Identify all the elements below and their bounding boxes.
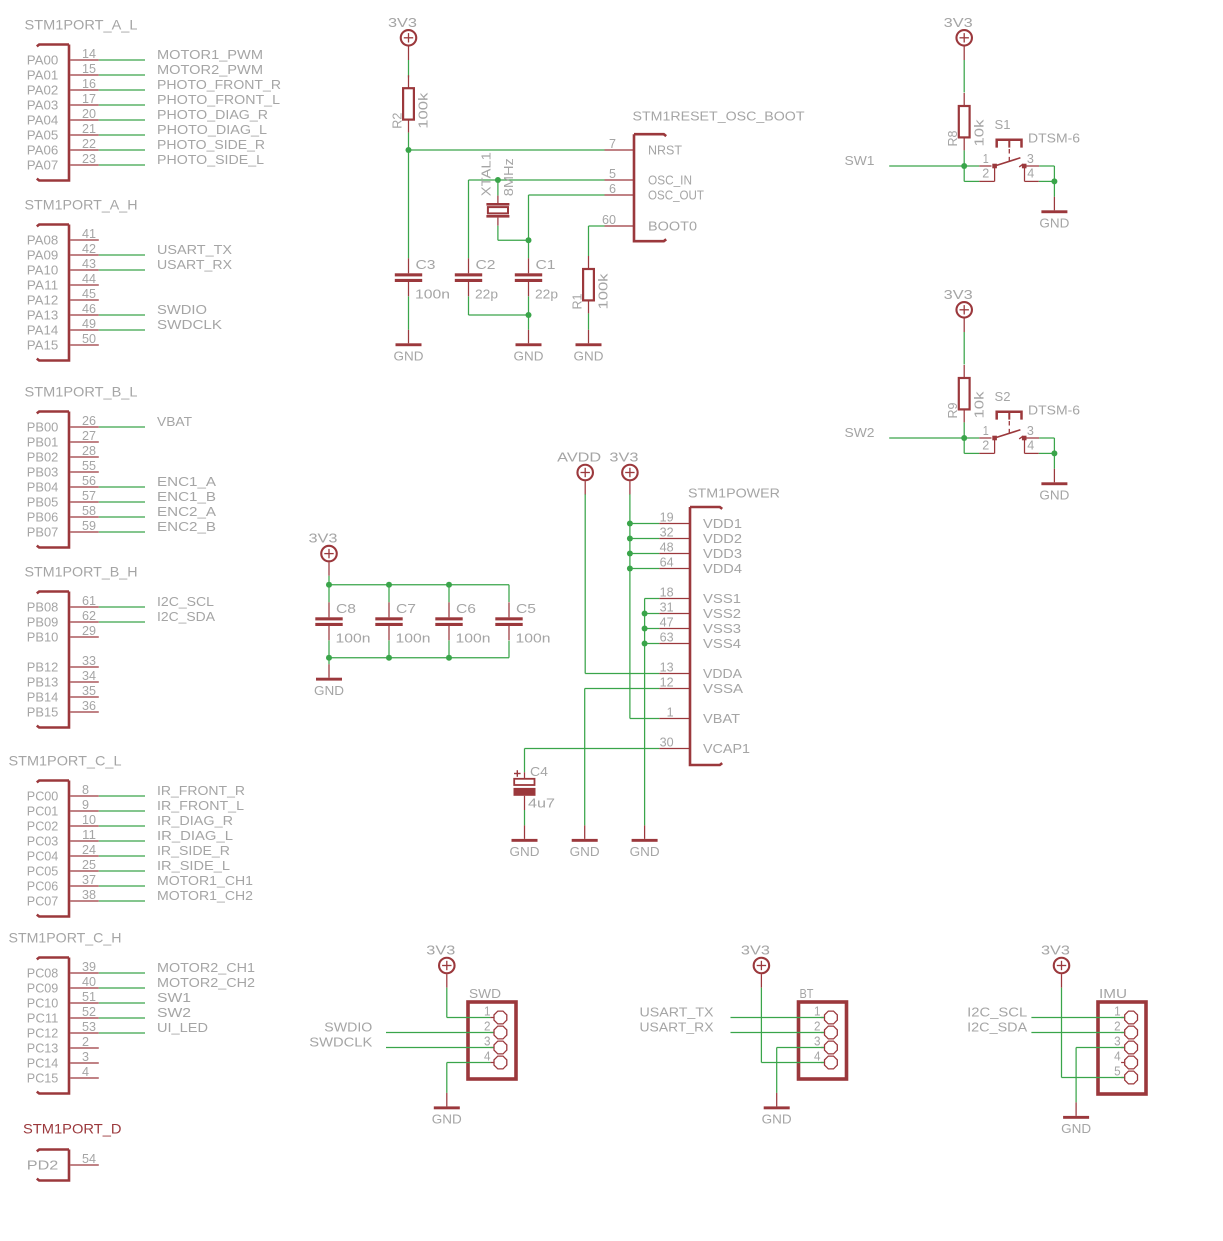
svg-text:PB04: PB04 — [27, 480, 59, 495]
svg-text:I2C_SDA: I2C_SDA — [157, 609, 215, 624]
wire down to ground — [1075, 1048, 1077, 1103]
svg-text:VBAT: VBAT — [157, 414, 192, 429]
svg-text:PC04: PC04 — [27, 849, 59, 864]
svg-text:100n: 100n — [336, 631, 371, 646]
junction VSS rail y=628.5 — [642, 626, 648, 632]
svg-text:8: 8 — [82, 782, 89, 797]
ground below R1 — [574, 330, 604, 364]
wire VSS pin — [645, 643, 660, 645]
svg-text:PD2: PD2 — [27, 1158, 59, 1173]
svg-text:VBAT: VBAT — [703, 711, 740, 726]
svg-text:C4: C4 — [530, 764, 548, 779]
pin 1 octagon pad — [1121, 1017, 1124, 1019]
wire 3V3 to R9 — [963, 332, 965, 365]
wire BOOT0 down to R1 — [588, 226, 590, 256]
svg-text:4: 4 — [814, 1049, 821, 1064]
svg-text:GND: GND — [314, 683, 344, 698]
pin 1 octagon pad — [821, 1017, 824, 1019]
svg-text:32: 32 — [660, 525, 674, 540]
pin 37 PC06 net MOTOR1_CH1 — [70, 885, 99, 887]
ground for decoupling bank — [314, 664, 344, 698]
svg-text:IR_DIAG_L: IR_DIAG_L — [157, 828, 233, 843]
wire R2 to NRST net — [408, 133, 410, 150]
wire bus to C8 — [328, 585, 330, 603]
pin 11 PC03 net IR_DIAG_L — [70, 840, 99, 842]
wire pins 3-4 — [1053, 438, 1055, 453]
svg-text:DTSM-6: DTSM-6 — [1028, 131, 1080, 146]
svg-text:MOTOR2_PWM: MOTOR2_PWM — [157, 62, 263, 77]
junction VDD rail y=568.5 — [627, 566, 633, 572]
svg-text:IMU: IMU — [1099, 986, 1127, 1001]
wire 3V3 to SWD pin 1 — [447, 1017, 491, 1019]
port STM1PORT_B_L body — [37, 412, 69, 548]
wire 3V3 down to pin 4 — [760, 988, 762, 1063]
wire I2C_SDA to pin 2 — [1031, 1032, 1124, 1034]
wire bus to C7 — [388, 585, 390, 603]
svg-text:SW2: SW2 — [845, 425, 875, 440]
wire C2 to C1 gnd node — [469, 314, 529, 316]
pin 47 VSS3 — [659, 628, 690, 630]
pin 13 VDDA — [659, 673, 690, 675]
pin 55 PB03 — [70, 471, 99, 473]
svg-text:GND: GND — [1061, 1121, 1091, 1136]
wire C8 to bottom bus — [328, 640, 330, 657]
ground below C1 — [514, 330, 544, 364]
svg-text:DTSM-6: DTSM-6 — [1028, 403, 1080, 418]
svg-text:USART_RX: USART_RX — [640, 1019, 714, 1034]
wire AVDD to VDDA — [584, 494, 586, 673]
wire IMU pin 3 to ground — [1076, 1047, 1124, 1049]
svg-text:PA13: PA13 — [27, 308, 59, 323]
junction VDD rail y=553.5 — [627, 551, 633, 557]
wire VSS rail — [644, 599, 646, 826]
wire 3V3 rail to VBAT — [630, 718, 659, 720]
svg-text:51: 51 — [82, 989, 96, 1004]
wire VCAP1 to C4 — [525, 748, 660, 750]
wire 3V3 to R8 — [963, 60, 965, 93]
pin 2 octagon pad — [1121, 1032, 1124, 1034]
svg-text:38: 38 — [82, 887, 96, 902]
wire I2C_SCL to pin 1 — [1031, 1017, 1124, 1019]
junction SW2 — [961, 435, 967, 441]
svg-text:VSS3: VSS3 — [703, 621, 741, 636]
svg-text:34: 34 — [82, 668, 96, 683]
svg-text:100k: 100k — [596, 273, 611, 310]
port STM1PORT_B_H body — [37, 592, 69, 728]
wire to ground — [1053, 181, 1055, 196]
pin 1 octagon pad — [490, 1017, 493, 1019]
wire to VDD pin — [630, 553, 659, 555]
pin 18 VSS1 — [659, 598, 690, 600]
wire 3V3 down — [446, 988, 448, 1018]
pin 32 VDD2 — [659, 538, 690, 540]
pin 49 PA14 net SWDCLK — [70, 329, 99, 331]
junction C1/C2 ground node — [526, 312, 532, 318]
svg-text:C1: C1 — [536, 257, 556, 272]
wire C2 bottom — [468, 296, 470, 315]
svg-text:PB01: PB01 — [27, 435, 59, 450]
svg-text:44: 44 — [82, 271, 96, 286]
pin 52 PC11 net SW2 — [70, 1017, 99, 1019]
svg-text:PC00: PC00 — [27, 789, 59, 804]
junction bottom bus at C8 — [326, 655, 332, 661]
pin 4 octagon pad — [821, 1062, 824, 1064]
svg-text:46: 46 — [82, 301, 96, 316]
pin 3 octagon pad — [821, 1047, 824, 1049]
svg-text:3: 3 — [814, 1034, 821, 1049]
svg-text:PC15: PC15 — [27, 1071, 59, 1086]
svg-text:I2C_SDA: I2C_SDA — [967, 1019, 1027, 1034]
wire R8 to SW1 net — [963, 150, 965, 166]
svg-text:2: 2 — [982, 438, 989, 453]
supply 3V3 (R2 pull-up) — [388, 15, 417, 60]
svg-text:PA06: PA06 — [27, 143, 59, 158]
supply 3V3 (power block) — [609, 450, 638, 495]
port STM1PORT_C_L body — [37, 781, 69, 917]
svg-text:PC01: PC01 — [27, 804, 59, 819]
svg-text:45: 45 — [82, 286, 96, 301]
svg-text:22p: 22p — [535, 287, 558, 302]
svg-text:IR_DIAG_R: IR_DIAG_R — [157, 813, 233, 828]
svg-text:PB12: PB12 — [27, 660, 59, 675]
junction bottom bus at C6 — [446, 655, 452, 661]
svg-text:100k: 100k — [416, 92, 431, 129]
svg-text:MOTOR1_PWM: MOTOR1_PWM — [157, 47, 263, 62]
svg-text:43: 43 — [82, 256, 96, 271]
wire C4 to ground — [524, 810, 526, 825]
junction top bus at C7 — [386, 582, 392, 588]
wire SWDIO to pin 2 — [386, 1032, 494, 1034]
svg-text:C3: C3 — [416, 257, 436, 272]
pin 16 PA02 net PHOTO_FRONT_R — [70, 89, 99, 91]
svg-text:STM1PORT_A_H: STM1PORT_A_H — [25, 197, 138, 213]
wire to VDD pin — [630, 568, 659, 570]
pin 51 PC10 net SW1 — [70, 1002, 99, 1004]
svg-text:I2C_SCL: I2C_SCL — [967, 1004, 1027, 1019]
svg-text:AVDD: AVDD — [557, 450, 601, 465]
svg-text:PC09: PC09 — [27, 981, 59, 996]
svg-text:22: 22 — [82, 136, 96, 151]
svg-text:PA14: PA14 — [27, 323, 59, 338]
capacitor C8 100n — [315, 602, 342, 640]
svg-text:SW1: SW1 — [157, 990, 191, 1005]
capacitor C6 100n — [435, 602, 462, 640]
pin 33 PB12 — [70, 666, 99, 668]
svg-text:35: 35 — [82, 683, 96, 698]
svg-text:IR_SIDE_R: IR_SIDE_R — [157, 843, 230, 858]
wire down to ground — [446, 1063, 448, 1093]
ground IMU — [1061, 1102, 1091, 1136]
svg-text:30: 30 — [660, 735, 674, 750]
wire VSS pin — [645, 613, 660, 615]
svg-text:22p: 22p — [475, 287, 498, 302]
wire pins 3-4 — [1053, 166, 1055, 181]
svg-text:PA15: PA15 — [27, 338, 59, 353]
svg-text:PA08: PA08 — [27, 233, 59, 248]
wire top bus — [329, 584, 509, 586]
svg-text:ENC1_A: ENC1_A — [157, 474, 216, 489]
wire OSC_OUT down — [528, 195, 530, 240]
svg-text:54: 54 — [82, 1151, 96, 1166]
svg-text:31: 31 — [660, 600, 674, 615]
svg-text:3V3: 3V3 — [609, 450, 638, 465]
wire OSC_IN down to C2 — [468, 180, 470, 258]
wire to VDD pin — [630, 538, 659, 540]
pin 8 PC00 net IR_FRONT_R — [70, 795, 99, 797]
svg-text:ENC2_B: ENC2_B — [157, 519, 216, 534]
resistor R1 100k — [583, 256, 594, 313]
svg-text:49: 49 — [82, 316, 96, 331]
svg-text:VSS4: VSS4 — [703, 636, 741, 651]
wire to switch pin 2 — [964, 180, 979, 182]
pin 39 PC08 net MOTOR2_CH1 — [70, 972, 99, 974]
ground below C4 — [510, 825, 540, 859]
wire to switch pin 2 — [963, 166, 965, 181]
svg-text:IR_FRONT_R: IR_FRONT_R — [157, 783, 245, 798]
svg-text:6: 6 — [609, 181, 616, 196]
svg-text:24: 24 — [82, 842, 96, 857]
svg-text:VDD1: VDD1 — [703, 516, 742, 531]
junction SW1 — [961, 163, 967, 169]
wire to ground — [528, 315, 530, 330]
svg-text:VDDA: VDDA — [703, 666, 742, 681]
wire to switch pin 2 — [963, 438, 965, 453]
svg-text:2: 2 — [1114, 1019, 1121, 1034]
wire 3V3 to IMU pin 5 — [1062, 1077, 1125, 1079]
pin 64 VDD4 — [659, 568, 690, 570]
svg-text:VSSA: VSSA — [703, 681, 743, 696]
svg-text:4: 4 — [1027, 438, 1034, 453]
pin 34 PB13 — [70, 681, 99, 683]
svg-text:MOTOR2_CH1: MOTOR2_CH1 — [157, 960, 255, 975]
svg-text:PC08: PC08 — [27, 966, 59, 981]
pin 26 PB00 net VBAT — [70, 426, 99, 428]
svg-text:7: 7 — [609, 136, 616, 151]
pin 42 PA09 net USART_TX — [70, 254, 99, 256]
svg-text:SWDIO: SWDIO — [157, 302, 207, 317]
svg-text:IR_FRONT_L: IR_FRONT_L — [157, 798, 244, 813]
svg-text:PB10: PB10 — [27, 630, 59, 645]
svg-text:37: 37 — [82, 872, 96, 887]
svg-text:19: 19 — [660, 510, 674, 525]
pin 63 VSS4 — [659, 643, 690, 645]
svg-text:9: 9 — [82, 797, 89, 812]
svg-text:GND: GND — [394, 349, 424, 364]
svg-text:PB09: PB09 — [27, 615, 59, 630]
pin 9 PC01 net IR_FRONT_L — [70, 810, 99, 812]
svg-text:53: 53 — [82, 1019, 96, 1034]
pin 2 octagon pad — [821, 1032, 824, 1034]
svg-text:STM1POWER: STM1POWER — [688, 486, 780, 501]
svg-text:PB00: PB00 — [27, 420, 59, 435]
svg-text:PA11: PA11 — [27, 278, 59, 293]
pin 12 VSSA — [659, 688, 690, 690]
wire VSSA to ground — [585, 688, 660, 690]
wire VSS1 — [645, 598, 660, 600]
supply 3V3 (BT) — [741, 943, 770, 988]
svg-text:PHOTO_FRONT_L: PHOTO_FRONT_L — [157, 92, 280, 107]
svg-text:GND: GND — [630, 844, 660, 859]
svg-text:PHOTO_DIAG_L: PHOTO_DIAG_L — [157, 122, 267, 137]
wire USART_TX to pin 1 — [731, 1017, 825, 1019]
svg-text:3: 3 — [1027, 423, 1034, 438]
ground below C3 — [394, 330, 424, 364]
junction OSC_IN / XTAL1 top — [495, 177, 501, 183]
svg-text:VDD2: VDD2 — [703, 531, 742, 546]
svg-text:2: 2 — [814, 1019, 821, 1034]
wire R9 to SW2 net — [963, 422, 965, 438]
svg-text:PB03: PB03 — [27, 465, 59, 480]
svg-text:PB06: PB06 — [27, 510, 59, 525]
junction VSS rail y=613.5 — [642, 611, 648, 617]
svg-text:GND: GND — [1039, 488, 1069, 503]
svg-text:PC06: PC06 — [27, 879, 59, 894]
svg-text:C7: C7 — [396, 601, 416, 616]
wire NRST net — [409, 149, 605, 151]
pin 43 PA10 net USART_RX — [70, 269, 99, 271]
svg-text:4: 4 — [1114, 1049, 1121, 1064]
capacitor C3 100n — [395, 258, 422, 296]
pin 54 PD2 — [70, 1164, 99, 1166]
pin 62 PB09 net I2C_SDA — [70, 621, 99, 623]
svg-text:62: 62 — [82, 608, 96, 623]
svg-text:PC13: PC13 — [27, 1041, 59, 1056]
svg-text:3V3: 3V3 — [388, 15, 417, 30]
svg-text:R8: R8 — [945, 131, 960, 147]
svg-text:OSC_IN: OSC_IN — [648, 173, 692, 188]
pin 3 octagon pad — [490, 1047, 493, 1049]
svg-text:42: 42 — [82, 241, 96, 256]
svg-text:58: 58 — [82, 503, 96, 518]
wire switch pin 3 — [1039, 165, 1054, 167]
supply 3V3 (IMU) — [1041, 943, 1070, 988]
ground VSSA — [570, 825, 600, 859]
svg-text:NRST: NRST — [648, 143, 682, 158]
svg-text:PC02: PC02 — [27, 819, 59, 834]
svg-text:40: 40 — [82, 974, 96, 989]
capacitor C7 100n — [375, 602, 402, 640]
svg-text:VCAP1: VCAP1 — [703, 741, 750, 756]
svg-text:VSS1: VSS1 — [703, 591, 741, 606]
supply 3V3 (R8) — [944, 15, 973, 60]
pin 50 PA15 — [70, 344, 99, 346]
svg-text:PA02: PA02 — [27, 83, 59, 98]
svg-text:PC05: PC05 — [27, 864, 59, 879]
junction XTAL1 bottom / C1 — [526, 237, 532, 243]
wire VSS pin — [645, 628, 660, 630]
svg-text:OSC_OUT: OSC_OUT — [648, 188, 704, 203]
svg-text:4: 4 — [82, 1064, 89, 1079]
wire C5 to bottom bus — [508, 641, 510, 658]
svg-text:3V3: 3V3 — [426, 943, 455, 958]
svg-text:PHOTO_SIDE_R: PHOTO_SIDE_R — [157, 137, 265, 152]
port STM1PORT_D body — [37, 1150, 69, 1181]
svg-text:10k: 10k — [971, 119, 986, 147]
pin 44 PA11 — [70, 284, 99, 286]
svg-text:4: 4 — [484, 1049, 491, 1064]
switch S1 DTSM-6 — [979, 140, 1039, 182]
svg-text:52: 52 — [82, 1004, 96, 1019]
ground for S1 — [1039, 197, 1069, 231]
svg-text:3V3: 3V3 — [741, 943, 770, 958]
pin 61 PB08 net I2C_SCL — [70, 606, 99, 608]
pin 17 PA03 net PHOTO_FRONT_L — [70, 104, 99, 106]
resistor R2 100k — [403, 75, 414, 132]
svg-text:1: 1 — [814, 1004, 821, 1019]
port STM1PORT_A_L body — [37, 45, 69, 181]
pin 2 PC13 — [70, 1047, 99, 1049]
svg-text:61: 61 — [82, 593, 96, 608]
wire to VDD pin — [630, 523, 659, 525]
svg-text:100n: 100n — [516, 631, 551, 646]
svg-text:3: 3 — [1114, 1034, 1121, 1049]
svg-text:20: 20 — [82, 106, 96, 121]
pin 25 PC05 net IR_SIDE_L — [70, 870, 99, 872]
svg-text:PB14: PB14 — [27, 690, 59, 705]
svg-text:PC03: PC03 — [27, 834, 59, 849]
svg-text:PC11: PC11 — [27, 1011, 59, 1026]
svg-text:PA03: PA03 — [27, 98, 59, 113]
pin 20 PA04 net PHOTO_DIAG_R — [70, 119, 99, 121]
wire top bus corner to C5 — [508, 585, 510, 602]
junction top bus at C6 — [446, 582, 452, 588]
svg-text:BT: BT — [800, 986, 814, 1001]
svg-text:100n: 100n — [396, 631, 431, 646]
svg-text:11: 11 — [82, 827, 96, 842]
wire C6 to bottom bus — [448, 640, 450, 657]
port STM1PORT_A_H body — [37, 225, 69, 361]
svg-text:GND: GND — [574, 349, 604, 364]
svg-text:BOOT0: BOOT0 — [648, 219, 697, 234]
pin 21 PA05 net PHOTO_DIAG_L — [70, 134, 99, 136]
svg-text:21: 21 — [82, 121, 96, 136]
svg-text:3V3: 3V3 — [944, 15, 973, 30]
svg-text:23: 23 — [82, 151, 96, 166]
svg-text:PB15: PB15 — [27, 705, 59, 720]
svg-text:VDD4: VDD4 — [703, 561, 742, 576]
svg-text:GND: GND — [1039, 216, 1069, 231]
wire C3 to ground — [408, 296, 410, 329]
pin 2 octagon pad — [490, 1032, 493, 1034]
svg-text:SW2: SW2 — [157, 1005, 191, 1020]
pin 45 PA12 — [70, 299, 99, 301]
svg-text:STM1PORT_B_H: STM1PORT_B_H — [25, 564, 138, 580]
svg-text:S2: S2 — [995, 389, 1011, 404]
svg-text:MOTOR1_CH1: MOTOR1_CH1 — [157, 873, 253, 888]
svg-text:PA12: PA12 — [27, 293, 59, 308]
wire R1 to ground — [588, 313, 590, 329]
svg-text:ENC1_B: ENC1_B — [157, 489, 216, 504]
pin 1 VBAT — [659, 718, 690, 720]
svg-text:10: 10 — [82, 812, 96, 827]
svg-text:SWD: SWD — [469, 986, 501, 1001]
pin 24 PC04 net IR_SIDE_R — [70, 855, 99, 857]
svg-text:GND: GND — [510, 844, 540, 859]
junction bottom bus at C7 — [386, 655, 392, 661]
ground SWD — [432, 1093, 462, 1127]
svg-text:R2: R2 — [389, 113, 404, 129]
junction pins 3/4 — [1051, 450, 1057, 456]
svg-text:R9: R9 — [945, 403, 960, 419]
pin 10 PC02 net IR_DIAG_R — [70, 825, 99, 827]
svg-text:USART_TX: USART_TX — [640, 1004, 714, 1019]
svg-text:UI_LED: UI_LED — [157, 1020, 208, 1035]
ground VSS rail — [630, 825, 660, 859]
svg-text:15: 15 — [82, 61, 96, 76]
wire switch pin 4 — [1039, 452, 1055, 454]
svg-text:GND: GND — [432, 1112, 462, 1127]
wire BT pin 3 to ground — [777, 1047, 824, 1049]
